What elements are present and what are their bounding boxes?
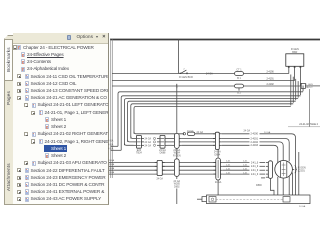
wire hook 1 right bend: [290, 75, 292, 106]
pin tick plug 3: [266, 169, 268, 171]
conduit inner left box: [209, 197, 216, 202]
svg-text:B 1: B 1: [237, 77, 241, 80]
svg-text:24 GA: 24 GA: [108, 143, 114, 146]
svg-text:2-41: 2-41: [243, 165, 248, 167]
svg-text:24 GA: 24 GA: [299, 205, 306, 208]
gen inner chord left: [279, 161, 281, 177]
svg-text:24GA: 24GA: [109, 163, 115, 166]
svg-text:24 GA: 24 GA: [264, 131, 271, 134]
svg-text:D892: D892: [174, 186, 180, 188]
svg-text:TB24: TB24: [136, 152, 142, 155]
wire bottom row 1: [109, 161, 216, 163]
pin tick plug 1: [266, 161, 268, 163]
wire bottom row 3: [109, 169, 216, 171]
wire gen lead 1: [222, 133, 250, 135]
conduit left bracket: [202, 197, 207, 202]
wire bottom lead 1: [223, 161, 250, 163]
wire feeder link F1-F2: [176, 148, 178, 158]
wire into plug 1: [260, 161, 266, 163]
svg-text:2-41: 2-41: [226, 165, 231, 167]
wire mid row seg1: [168, 144, 173, 146]
wire hook 5 right bend: [300, 83, 302, 95]
pin ticks D685: [213, 169, 215, 171]
schematic document: [108, 0, 320, 240]
tree rows overlay: [0, 0, 108, 204]
pin ticks D685: [213, 173, 215, 175]
gen bottom pins: [277, 177, 279, 195]
svg-text:2-4190: 2-4190: [251, 133, 259, 136]
wire bundle row 6: [134, 106, 291, 133]
wire into plug 3: [260, 169, 266, 171]
svg-text:24 GA: 24 GA: [206, 73, 213, 76]
wire v6 east row1: [134, 132, 184, 134]
wire bottom row 4: [109, 173, 216, 175]
relay R GEN BKR box: [286, 54, 304, 67]
svg-text:2-41: 2-41: [226, 169, 231, 171]
pin ticks D685: [213, 161, 215, 163]
wire callout drop: [309, 89, 311, 127]
wire exciter row: [195, 133, 215, 135]
svg-text:2-41: 2-41: [226, 161, 231, 163]
svg-text:24GA: 24GA: [109, 171, 115, 174]
svg-text:24 GA: 24 GA: [174, 180, 181, 183]
current transformer CT2: [235, 84, 244, 88]
svg-text:2-41: 2-41: [243, 161, 248, 163]
svg-text:24 GA: 24 GA: [108, 140, 114, 143]
svg-text:24 GA: 24 GA: [197, 131, 204, 134]
wire phase B feeder: [112, 80, 295, 82]
wire v4 east: [128, 140, 134, 142]
svg-text:24 GA: 24 GA: [145, 138, 152, 141]
svg-text:24 GA: 24 GA: [145, 144, 152, 147]
wire gen lead bend 4: [260, 145, 278, 162]
wire bundle row 5: [131, 104, 293, 139]
svg-text:D890: D890: [256, 184, 262, 187]
filter oval FL1: [187, 132, 194, 135]
svg-text:2-41_0: 2-41_0: [251, 166, 259, 168]
connector D890 plug: [268, 161, 272, 179]
navigation tab strip: [4, 35, 13, 205]
current transformer CT1: [235, 72, 244, 76]
bookmark tree: [13, 45, 109, 204]
svg-text:2: 2: [183, 68, 185, 70]
svg-text:24 GA: 24 GA: [145, 141, 152, 144]
wire bundle row 2: [121, 96, 300, 151]
wire stub to border 1: [111, 145, 119, 147]
wire link E-E2: [217, 149, 219, 158]
svg-text:2-41: 2-41: [226, 172, 231, 174]
pin ticks TB24: [134, 141, 137, 143]
svg-text:2-4190: 2-4190: [267, 72, 275, 74]
svg-text:L GEN: L GEN: [306, 84, 313, 86]
connector D688: [160, 135, 165, 148]
pin ticks D684: [213, 133, 215, 135]
stub plug pin 6: [261, 177, 265, 179]
wire mid row seg2: [182, 144, 216, 146]
node circle exciter: [183, 133, 185, 135]
svg-text:24 GA: 24 GA: [244, 130, 251, 133]
pin ticks D684: [213, 141, 215, 143]
svg-text:2-41_0: 2-41_0: [251, 162, 259, 164]
wire hook 2 right bend: [292, 77, 294, 103]
svg-text:BUS 2: BUS 2: [306, 87, 313, 89]
diagram top border: [110, 39, 320, 41]
wire E2 to conduit: [217, 180, 219, 195]
pin ticks TB2: [155, 161, 157, 163]
wire mid row seg1: [168, 138, 173, 140]
wire bundle row 4: [128, 101, 296, 142]
wire bottom row 2: [109, 165, 216, 167]
generator R GEN: [275, 161, 293, 179]
wire drop from top border: [178, 40, 180, 74]
conduit box: [207, 195, 311, 204]
page left border inner: [111, 40, 113, 179]
svg-text:2-41: 2-41: [243, 169, 248, 171]
wire into plug 4: [260, 173, 266, 175]
svg-text:D688: D688: [160, 152, 166, 155]
pin ticks TB24: [134, 144, 137, 146]
pin ticks F1: [172, 144, 174, 146]
svg-text:BKR: BKR: [292, 51, 297, 54]
pin T1 of breaker: [288, 66, 290, 73]
wire bypass pair: [298, 152, 300, 195]
wire stub to border 2: [111, 149, 122, 151]
pin ticks D685: [213, 165, 215, 167]
svg-text:2-4193: 2-4193: [251, 144, 259, 147]
wire v5 east: [131, 137, 134, 139]
svg-text:2-41_0: 2-41_0: [251, 170, 259, 172]
gen inner marks: [282, 164, 286, 166]
pin T3 of breaker: [299, 66, 301, 86]
gen right tick: [292, 168, 294, 170]
svg-text:2-41_0: 2-41_0: [251, 174, 259, 176]
brace: [295, 166, 297, 173]
pin ticks TB24: [134, 138, 137, 140]
wire bundle row 1: [118, 92, 303, 147]
wire phase A feeder: [112, 73, 289, 75]
feeder terminal F2: [174, 159, 179, 177]
wire gen lead bend 2: [260, 139, 290, 162]
connector D685: [216, 158, 221, 180]
svg-text:24 GA: 24 GA: [156, 177, 163, 180]
svg-text:CT 1: CT 1: [236, 68, 242, 71]
pin ticks D688: [157, 141, 160, 143]
ground lead: [176, 176, 178, 179]
pin ticks D684: [213, 144, 215, 146]
contactor R GEN CONT: [181, 70, 187, 73]
svg-text:24GA: 24GA: [109, 167, 115, 170]
svg-text:2-41: 2-41: [243, 172, 248, 174]
wire bottom lead 2: [223, 165, 250, 167]
pin ticks TB2: [155, 165, 157, 167]
wire bottom lead 4: [223, 173, 250, 175]
wire v3 east: [124, 143, 133, 145]
svg-text:2-4192: 2-4192: [267, 84, 275, 86]
pin ticks D688: [157, 144, 160, 146]
terminal block right edge: [301, 83, 305, 88]
pin T2 of breaker: [294, 66, 296, 80]
wire mid row seg2: [182, 138, 216, 140]
gen inner chord right: [286, 161, 288, 177]
connector TB24: [136, 135, 141, 148]
bookmarks panel: [13, 33, 110, 205]
wire hook 4 right bend: [297, 81, 299, 98]
svg-text:2-4191: 2-4191: [267, 79, 275, 81]
pin ticks TB2: [155, 169, 157, 171]
pin ticks F1: [172, 141, 174, 143]
svg-text:24 GA: 24 GA: [108, 147, 114, 150]
wire hook 6 right bend: [302, 86, 304, 92]
wire bundle row 3: [124, 99, 298, 146]
svg-text:D684: D684: [214, 153, 220, 156]
wire phase C feeder: [112, 85, 301, 87]
wire gen lead bend 3: [260, 142, 284, 161]
svg-text:R GEN BKR: R GEN BKR: [179, 76, 193, 79]
inner line D685: [217, 160, 219, 178]
pin ticks D688: [157, 138, 160, 140]
panel header Options bar: [13, 33, 109, 44]
wire plug drop: [270, 178, 274, 195]
pin tick plug 5: [266, 176, 268, 178]
conduit inner right box: [283, 197, 290, 202]
page left border outer: [110, 40, 112, 179]
wire gen lead 4: [222, 144, 250, 146]
connector TB2 bottom: [157, 160, 162, 175]
pin ticks F1: [172, 138, 174, 140]
junction tick on phase C: [176, 84, 178, 88]
svg-text:W285: W285: [174, 184, 181, 186]
pin tick plug 4: [266, 173, 268, 175]
wire gen lead 3: [222, 141, 250, 143]
connector D684: [215, 132, 219, 149]
wire into plug 2: [260, 165, 266, 167]
feeder terminal F1: [174, 133, 179, 148]
pin ticks D684: [213, 138, 215, 140]
svg-text:24GA: 24GA: [109, 159, 115, 162]
wire mid row seg2: [182, 141, 216, 143]
wire hook 3 right bend: [295, 79, 297, 100]
wire feeder drop: [176, 86, 178, 133]
wire bottom lead 3: [223, 169, 250, 171]
wire mid row seg1: [168, 141, 173, 143]
wire gen lead 2: [222, 138, 250, 140]
svg-text:(CSD): (CSD): [298, 170, 305, 173]
svg-text:24-21-02 PAGE 2: 24-21-02 PAGE 2: [299, 123, 318, 126]
wire gen lead bend 1: [260, 134, 296, 195]
pin tick plug 2: [266, 165, 268, 167]
conduit dashed line: [216, 198, 283, 200]
